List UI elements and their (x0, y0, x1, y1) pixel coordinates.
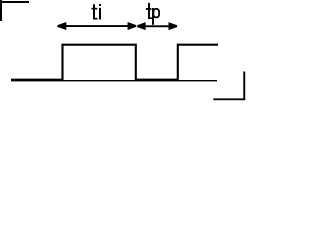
arrowhead tp left (137, 22, 145, 30)
wire: zero baseline (thin axis under pulses) (11, 80, 217, 81)
arrowhead tp right (169, 22, 178, 30)
label tp (146, 3, 159, 25)
wire: top-left bracket horizontal segment (cut-off pulse bottom above) (0, 1, 29, 3)
waveform: pulse train signal (11, 45, 218, 80)
dimension line tp (pause width) (141, 25, 173, 27)
dimension line ti (pulse width) (62, 25, 132, 27)
wire: top-left bracket vertical segment (0, 0, 2, 21)
wire: bottom-right bracket horizontal segment (213, 98, 245, 100)
arrowhead ti left (57, 22, 66, 30)
wire: bottom-right bracket vertical segment (cut-off next pulse edge) (243, 72, 245, 100)
arrowhead ti right (128, 22, 137, 30)
label ti (92, 4, 102, 20)
